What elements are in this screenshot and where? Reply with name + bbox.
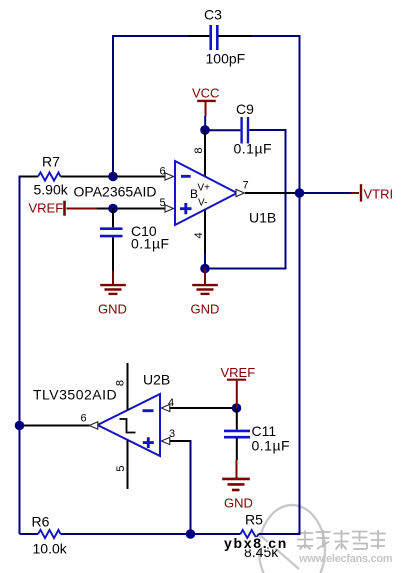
svg-text:C3: C3: [204, 7, 222, 23]
svg-text:VTRI: VTRI: [364, 187, 394, 202]
svg-text:www.elecfans.com: www.elecfans.com: [298, 553, 393, 565]
node R7/C3/pin6 junction: [108, 172, 118, 182]
net VREF (left port): [29, 201, 98, 216]
wire U2B pin5 stub: [127, 441, 129, 490]
svg-text:0.1µF: 0.1µF: [234, 141, 273, 157]
wire U2B pin8 stub: [127, 363, 129, 411]
svg-text:R6: R6: [32, 514, 50, 530]
svg-text:C9: C9: [236, 101, 254, 117]
svg-text:5: 5: [160, 197, 166, 209]
svg-text:5: 5: [115, 465, 127, 471]
comparator U2B: [33, 372, 170, 457]
svg-text:8: 8: [115, 380, 127, 386]
svg-text:7: 7: [243, 180, 249, 192]
pin 3 arrow (U2B): [161, 437, 170, 444]
wire pin8 stub: [204, 130, 206, 177]
svg-text:VREF: VREF: [29, 201, 64, 216]
wire top loop horizontal: [112, 35, 188, 37]
wire U2B pin3 down to bottom rail: [170, 440, 191, 442]
watermark: [259, 505, 393, 573]
capacitor C9: [205, 101, 272, 157]
capacitor C10: [100, 209, 170, 272]
node VREF/C11 junction: [232, 403, 242, 413]
svg-text:100pF: 100pF: [206, 51, 246, 67]
wire R7 node to pin 6: [108, 176, 165, 178]
wire C9 right to return vertical: [249, 129, 286, 269]
wire right vertical: [299, 35, 301, 534]
svg-text:GND: GND: [191, 302, 220, 317]
op-amp U1B: [74, 161, 277, 226]
ground (under U1B pin 4): [191, 269, 220, 317]
node VCC/C9/pin8 junction: [200, 125, 210, 135]
capacitor C11: [224, 408, 290, 460]
pin 5 arrow: [165, 205, 174, 212]
svg-text:0.1µF: 0.1µF: [131, 236, 170, 252]
svg-text:R5: R5: [245, 512, 263, 528]
node VTRI junction: [295, 188, 305, 198]
svg-text:TLV3502AID: TLV3502AID: [33, 387, 117, 403]
svg-text:U1B: U1B: [249, 210, 276, 226]
wire U2B output: [20, 425, 90, 427]
ground (under C10): [98, 271, 127, 317]
node VREF/C10/pin5 junction: [108, 204, 118, 214]
pin 6 arrow (U2B output): [89, 422, 98, 429]
wire pin4 node to C9 return: [205, 268, 287, 270]
wire pin4 stub: [204, 210, 206, 254]
wire bottom rail right: [259, 533, 301, 535]
svg-text:10.0k: 10.0k: [33, 541, 68, 557]
node U2B output junction: [15, 421, 25, 431]
svg-text:VCC: VCC: [192, 85, 219, 100]
svg-text:U2B: U2B: [143, 372, 170, 388]
svg-text:GND: GND: [224, 495, 253, 510]
resistor R6: [20, 514, 68, 557]
wire VREF to pin 5: [97, 208, 165, 210]
svg-text:V+: V+: [198, 183, 211, 194]
svg-text:V-: V-: [198, 198, 207, 209]
wire bottom rail: [61, 533, 191, 535]
net VREF (top port near C11): [221, 365, 256, 408]
capacitor C3: [204, 7, 245, 67]
wire pin7 to VTRI node: [245, 192, 295, 194]
pin 6 arrow: [165, 173, 174, 180]
svg-text:VREF: VREF: [221, 365, 256, 380]
pin 7 arrow: [236, 189, 244, 196]
net VCC: [192, 85, 219, 130]
svg-text:3: 3: [169, 428, 175, 440]
svg-text:GND: GND: [98, 302, 127, 317]
node R6/R5/pin3 junction: [186, 529, 196, 539]
svg-text:R7: R7: [42, 154, 60, 170]
svg-text:8: 8: [193, 147, 205, 153]
pin 4 arrow (U2B): [161, 404, 170, 411]
resistor R7: [20, 154, 108, 198]
svg-text:6: 6: [81, 413, 87, 425]
svg-text:6: 6: [160, 166, 166, 178]
resistor R5: [191, 512, 280, 561]
svg-text:ybx8.cn: ybx8.cn: [224, 535, 288, 551]
wire far left vertical: [19, 176, 21, 535]
wire left upper vertical: [112, 35, 114, 177]
svg-text:5.90k: 5.90k: [34, 182, 69, 198]
wire U2B pin4 to VREF node: [170, 407, 233, 409]
svg-text:OPA2365AID: OPA2365AID: [74, 184, 157, 200]
svg-text:0.1µF: 0.1µF: [252, 438, 291, 454]
svg-text:4: 4: [193, 232, 205, 238]
ground (under C11): [222, 460, 253, 510]
node pin4/GND junction: [200, 264, 210, 274]
net VTRI port: [300, 184, 394, 201]
